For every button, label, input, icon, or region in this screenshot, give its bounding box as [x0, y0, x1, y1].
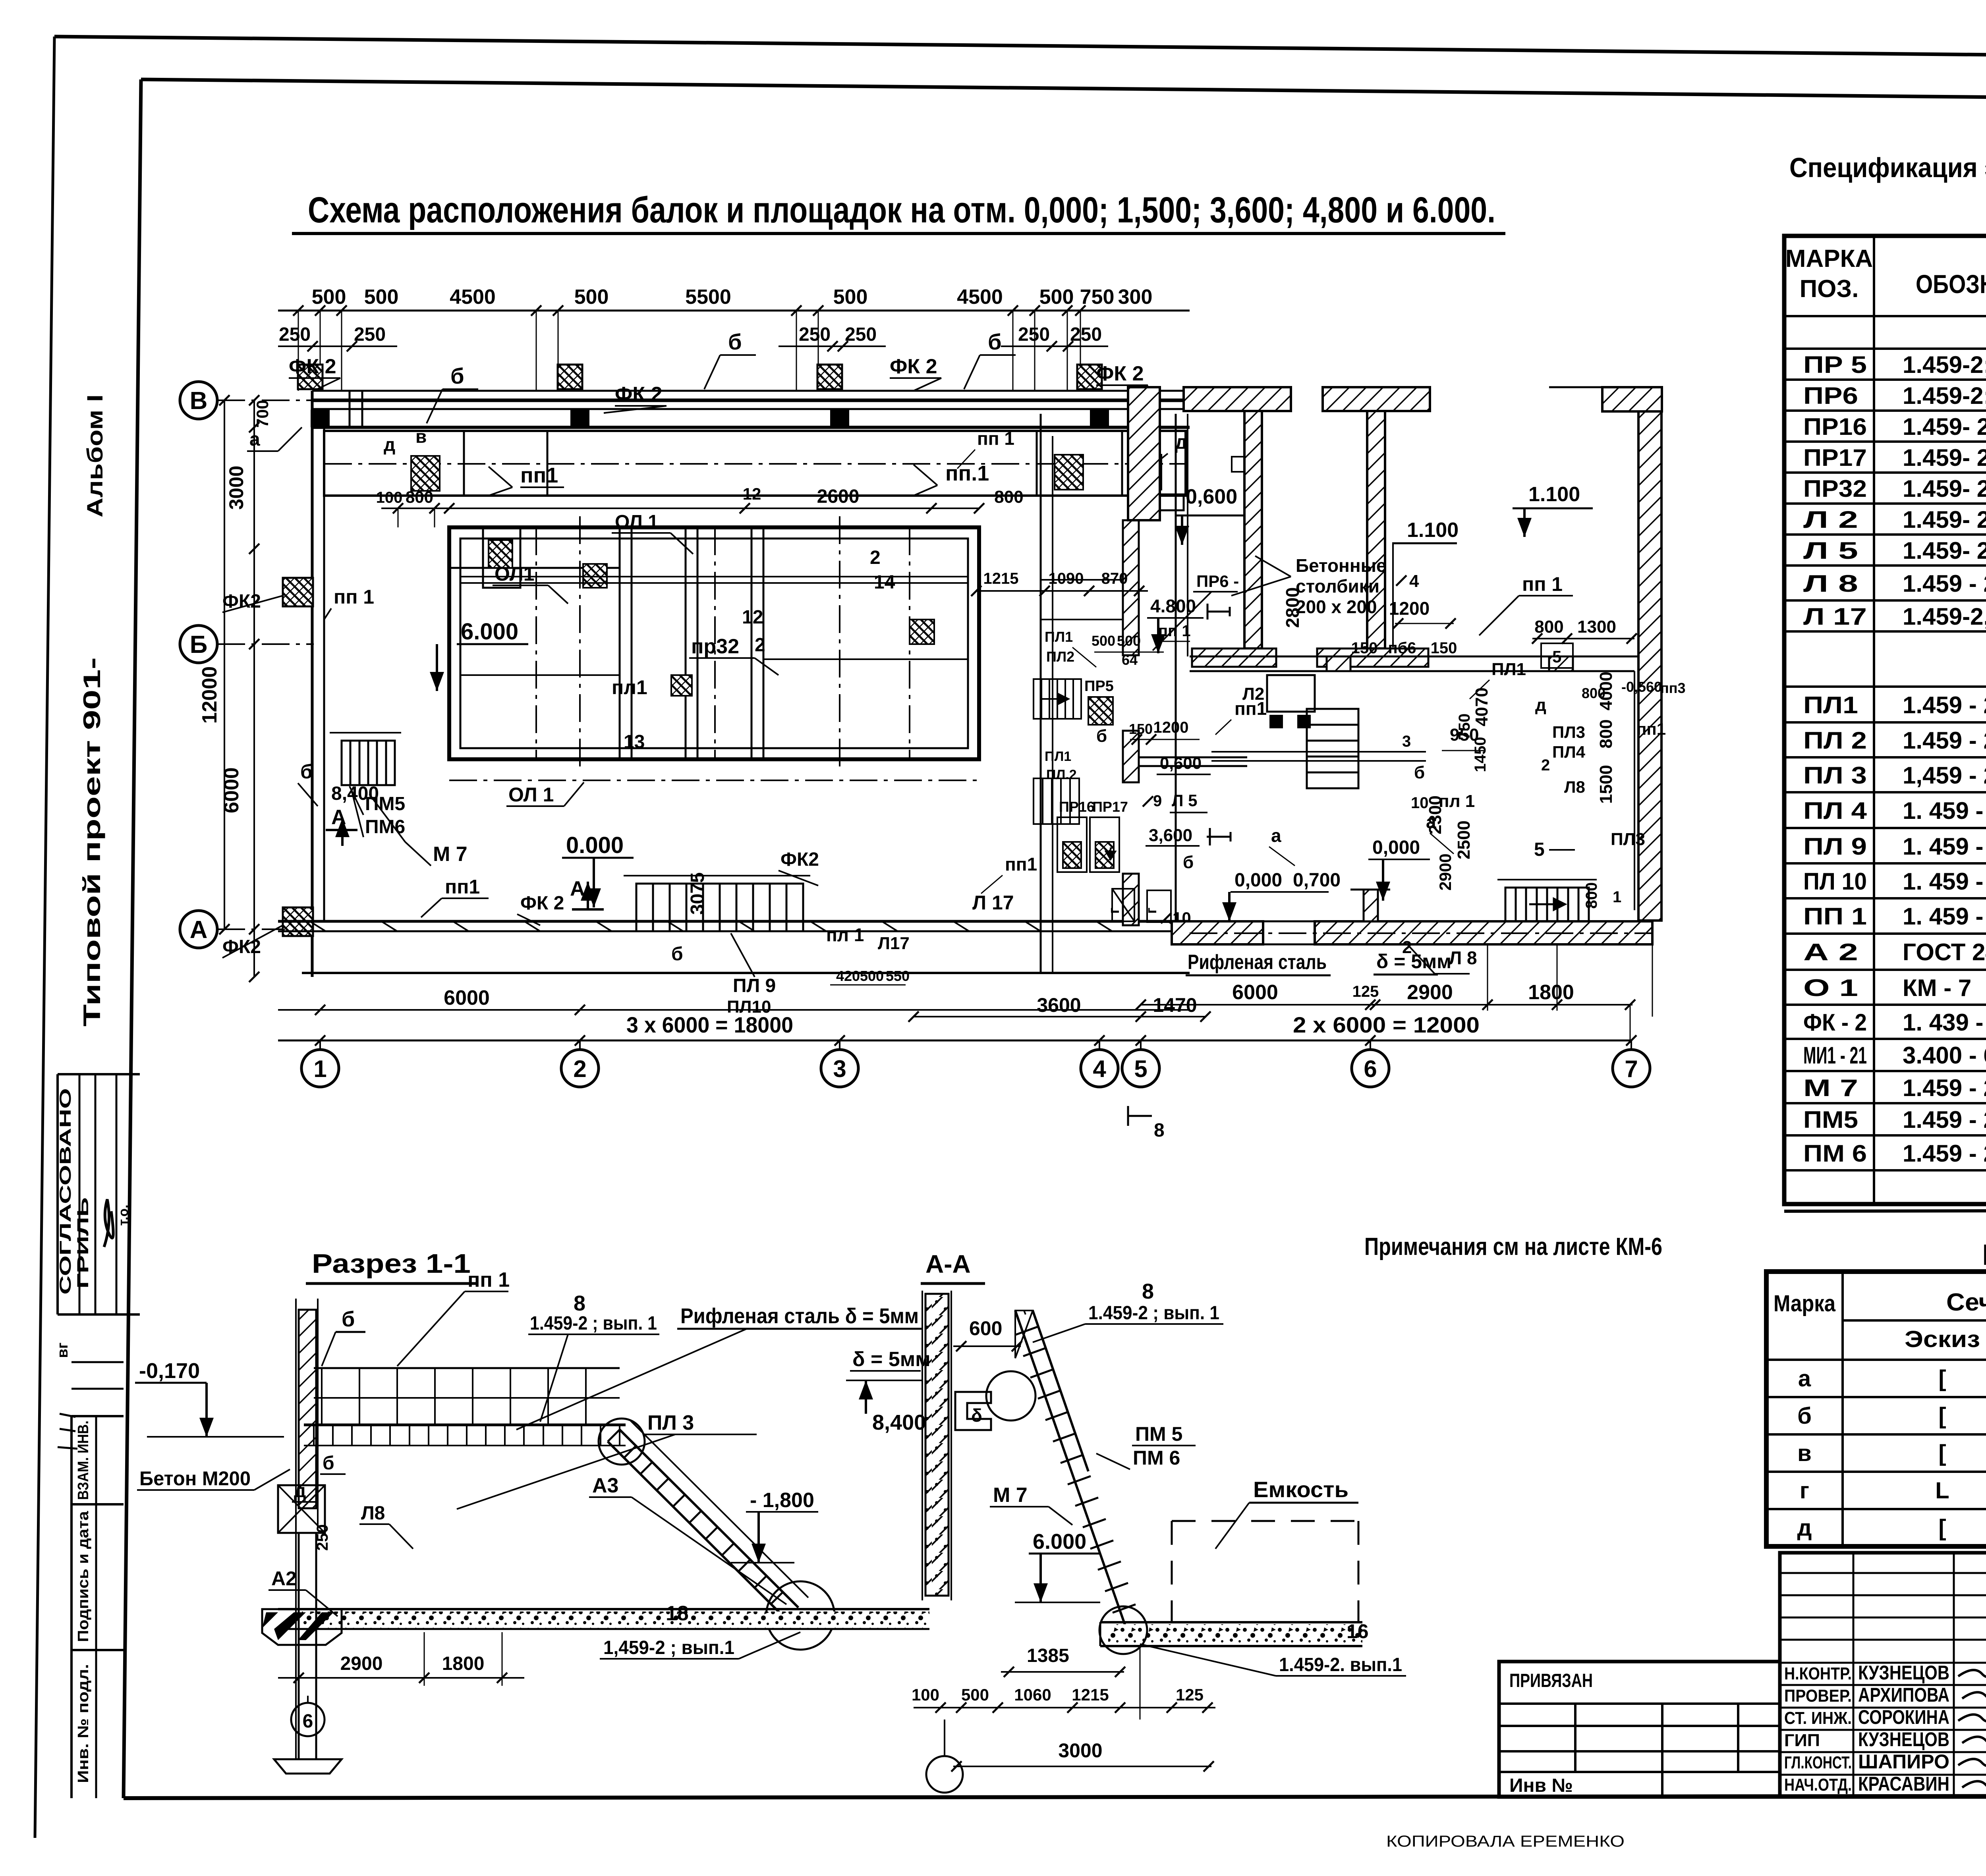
- svg-text:100: 100: [912, 1685, 939, 1704]
- svg-text:4500: 4500: [957, 286, 1003, 309]
- svg-text:ГРИЛЬ: ГРИЛЬ: [74, 1197, 92, 1289]
- svg-text:L: L: [1935, 1478, 1949, 1504]
- svg-text:б: б: [1797, 1403, 1812, 1429]
- svg-text:МИ1 - 21: МИ1 - 21: [1803, 1042, 1867, 1069]
- svg-text:Л 17: Л 17: [1803, 603, 1867, 630]
- plan: bottom wall hatch ticks: [310, 921, 326, 931]
- svg-text:пб6: пб6: [1388, 639, 1416, 657]
- svg-text:М 7: М 7: [433, 843, 468, 866]
- svg-text:1.459-2; вып.1: 1.459-2; вып.1: [1903, 351, 1986, 378]
- svg-text:- 1,800: - 1,800: [750, 1489, 814, 1512]
- svg-text:Инв. № подл.: Инв. № подл.: [75, 1664, 92, 1783]
- svg-text:1385: 1385: [1027, 1645, 1069, 1666]
- svg-text:Бетон М200: Бетон М200: [139, 1467, 251, 1490]
- svg-text:ПЛ2: ПЛ2: [1046, 648, 1074, 665]
- plan: tank inner rails: [461, 576, 968, 577]
- svg-text:600: 600: [969, 1317, 1002, 1339]
- svg-text:6: 6: [1364, 1056, 1377, 1082]
- section A-A ladder: [1015, 1310, 1127, 1631]
- svg-text:6000: 6000: [444, 986, 490, 1009]
- svg-text:500: 500: [961, 1685, 989, 1704]
- svg-text:1200: 1200: [1153, 719, 1189, 736]
- svg-text:ПР6: ПР6: [1803, 382, 1858, 409]
- svg-text:1.459 - 2 , вып. 2: 1.459 - 2 , вып. 2: [1903, 1106, 1986, 1133]
- svg-text:Типовой проект 901-: Типовой проект 901-: [79, 657, 105, 1027]
- svg-text:0,600: 0,600: [1160, 754, 1202, 772]
- section 1-1 stair diagonal: [620, 1430, 798, 1608]
- svg-text:д: д: [384, 434, 395, 455]
- svg-text:ФК2: ФК2: [780, 849, 819, 870]
- svg-text:100: 100: [376, 489, 403, 506]
- svg-text:1.459-2 ; вып. 1: 1.459-2 ; вып. 1: [1088, 1303, 1219, 1324]
- svg-text:ПП 1: ПП 1: [1803, 903, 1867, 930]
- svg-text:ФК 2: ФК 2: [1096, 362, 1144, 385]
- svg-text:3.400 - 6 / 76: 3.400 - 6 / 76: [1903, 1042, 1986, 1069]
- svg-text:КУЗНЕЦОВ: КУЗНЕЦОВ: [1858, 1662, 1949, 1684]
- svg-text:д: д: [1535, 695, 1546, 715]
- svg-text:3: 3: [833, 1056, 846, 1082]
- svg-text:ПЛ3: ПЛ3: [1552, 723, 1585, 741]
- svg-text:δ: δ: [971, 1405, 982, 1426]
- svg-text:1. 459 - 2 , вып. 2: 1. 459 - 2 , вып. 2: [1903, 868, 1986, 895]
- svg-text:8,400: 8,400: [872, 1411, 926, 1434]
- svg-text:500: 500: [312, 286, 346, 309]
- svg-text:[: [: [1938, 1366, 1946, 1392]
- svg-text:пп1: пп1: [1005, 854, 1037, 874]
- svg-text:2900: 2900: [1436, 853, 1455, 890]
- svg-text:б: б: [1183, 853, 1194, 872]
- svg-text:столбики: столбики: [1296, 576, 1379, 596]
- svg-text:д: д: [294, 1480, 306, 1502]
- svg-text:2: 2: [870, 547, 881, 568]
- svg-text:ПРОВЕР.: ПРОВЕР.: [1784, 1686, 1852, 1706]
- svg-text:12000: 12000: [198, 666, 221, 724]
- svg-text:Л8: Л8: [1564, 778, 1585, 796]
- svg-text:ПЛ1: ПЛ1: [1803, 692, 1858, 718]
- svg-text:А-А: А-А: [925, 1250, 971, 1278]
- svg-text:пп1: пп1: [1234, 698, 1267, 719]
- svg-text:2: 2: [573, 1056, 586, 1082]
- svg-text:500: 500: [860, 968, 884, 984]
- svg-text:[: [: [1938, 1440, 1946, 1466]
- svg-text:пл 1: пл 1: [826, 924, 864, 945]
- svg-text:Емкость: Емкость: [1253, 1477, 1348, 1502]
- svg-text:3075: 3075: [687, 872, 708, 915]
- svg-text:870: 870: [1101, 570, 1128, 587]
- vedomost table grid: [1766, 1272, 1986, 1546]
- section 1-1 column bottom: [278, 1485, 325, 1533]
- svg-text:ФК 2: ФК 2: [615, 383, 663, 406]
- plan: bottom sub dims: [278, 1009, 1190, 1011]
- svg-text:ПР16: ПР16: [1059, 799, 1095, 815]
- svg-text:ВЗАМ. ИНВ.: ВЗАМ. ИНВ.: [75, 1421, 92, 1500]
- svg-text:МАРКА: МАРКА: [1785, 245, 1873, 272]
- title block: [1499, 1662, 1780, 1797]
- plan: right room walls: [1190, 656, 1638, 658]
- svg-text:500: 500: [364, 286, 399, 309]
- svg-text:т.о.: т.о.: [116, 1204, 131, 1226]
- svg-text:2: 2: [1541, 757, 1550, 774]
- section A-A floor slab: [1100, 1621, 1362, 1623]
- svg-text:пп 1: пп 1: [977, 428, 1014, 449]
- svg-text:250: 250: [1070, 324, 1102, 345]
- svg-text:6000: 6000: [1232, 981, 1278, 1004]
- svg-text:Эскиз: Эскиз: [1905, 1326, 1980, 1352]
- svg-text:1.459-2; вып.1: 1.459-2; вып.1: [1903, 382, 1986, 409]
- svg-text:ФК - 2: ФК - 2: [1803, 1009, 1867, 1036]
- svg-text:а: а: [1426, 811, 1436, 832]
- svg-text:ПЛ 3: ПЛ 3: [647, 1411, 694, 1434]
- plan: big tank: [449, 527, 979, 759]
- svg-text:пп 1: пп 1: [468, 1268, 510, 1291]
- svg-text:ПОЗ.: ПОЗ.: [1800, 275, 1859, 303]
- svg-text:АРХИПОВА: АРХИПОВА: [1858, 1684, 1949, 1706]
- svg-text:б: б: [728, 329, 742, 354]
- svg-text:ГЛ.КОНСТ.: ГЛ.КОНСТ.: [1784, 1753, 1852, 1772]
- svg-text:12: 12: [742, 607, 763, 628]
- svg-text:800: 800: [1534, 617, 1563, 637]
- svg-text:ФК 2: ФК 2: [520, 893, 564, 914]
- plan: top platform strip pp1: [324, 431, 1186, 496]
- sheet inner frame top: [141, 79, 1986, 102]
- svg-text:800: 800: [1583, 882, 1600, 909]
- svg-text:1.459- 2, вып. 2: 1.459- 2, вып. 2: [1903, 537, 1986, 564]
- svg-text:1: 1: [313, 1056, 326, 1082]
- svg-text:пп 1: пп 1: [1158, 622, 1191, 640]
- svg-text:500: 500: [833, 286, 868, 309]
- svg-text:ПР17: ПР17: [1092, 799, 1128, 815]
- svg-text:2 х 6000 = 12000: 2 х 6000 = 12000: [1293, 1012, 1480, 1037]
- plan: tower stair L5: [1034, 679, 1081, 719]
- svg-text:200 х 200: 200 х 200: [1296, 596, 1377, 617]
- svg-text:-0,560: -0,560: [1621, 679, 1662, 695]
- svg-text:1.459 - 2 , вып. 2: 1.459 - 2 , вып. 2: [1903, 1075, 1986, 1101]
- svg-text:1. 459 - 2 , вып. 2: 1. 459 - 2 , вып. 2: [1903, 903, 1986, 930]
- svg-text:5500: 5500: [685, 286, 731, 309]
- svg-text:250: 250: [314, 1524, 331, 1551]
- svg-text:4500: 4500: [450, 286, 496, 309]
- svg-text:Бетонные: Бетонные: [1296, 555, 1387, 576]
- svg-text:СТ. ИНЖ.: СТ. ИНЖ.: [1784, 1708, 1852, 1728]
- svg-text:1200: 1200: [1389, 598, 1430, 619]
- svg-text:Сечение: Сечение: [1946, 1289, 1986, 1316]
- svg-text:д: д: [1175, 431, 1188, 453]
- svg-text:300: 300: [1118, 286, 1153, 309]
- svg-text:О 1: О 1: [1803, 975, 1858, 1001]
- left strip bottom boxes: [70, 1416, 73, 1798]
- svg-text:800: 800: [994, 487, 1023, 507]
- section 1-1 wall column: [299, 1310, 316, 1508]
- svg-text:1090: 1090: [1049, 570, 1084, 587]
- svg-text:Б: Б: [190, 631, 208, 658]
- svg-text:А: А: [190, 916, 208, 944]
- svg-text:150: 150: [1431, 639, 1457, 657]
- svg-text:16: 16: [1347, 1620, 1369, 1642]
- plan: tower bottom small boxes: [1112, 889, 1134, 921]
- svg-text:Альбом I: Альбом I: [82, 394, 107, 517]
- svg-text:550: 550: [886, 968, 910, 984]
- svg-text:250: 250: [845, 324, 877, 345]
- svg-text:0,700: 0,700: [1293, 870, 1341, 891]
- svg-text:5: 5: [1534, 839, 1545, 860]
- svg-text:750: 750: [1080, 286, 1115, 309]
- svg-text:2900: 2900: [1407, 981, 1453, 1004]
- svg-text:1. 439 - 2: 1. 439 - 2: [1903, 1009, 1986, 1036]
- svg-text:Л17: Л17: [878, 934, 910, 953]
- svg-text:пп.1: пп.1: [945, 461, 989, 485]
- svg-text:700: 700: [253, 400, 272, 428]
- svg-text:1800: 1800: [442, 1653, 485, 1674]
- svg-text:1.459-2, вып. 2: 1.459-2, вып. 2: [1903, 603, 1986, 630]
- svg-text:Л 17: Л 17: [972, 892, 1014, 914]
- svg-text:ШАПИРО: ШАПИРО: [1858, 1751, 1949, 1773]
- svg-text:ПРИВЯЗАН: ПРИВЯЗАН: [1509, 1670, 1593, 1691]
- svg-text:3000: 3000: [1058, 1739, 1102, 1762]
- plan: right section hatched walls: [1128, 387, 1160, 520]
- svg-text:Спецификация элементов к сх: Спецификация элементов к схемам располож…: [1789, 152, 1986, 183]
- plan: bottom central stair: [636, 884, 803, 931]
- plan: building top wall: [312, 390, 1190, 392]
- svg-text:ПМ 6: ПМ 6: [1803, 1140, 1867, 1167]
- svg-text:ПЛ 9: ПЛ 9: [733, 975, 776, 996]
- svg-text:1300: 1300: [1577, 617, 1616, 637]
- svg-text:г: г: [1143, 907, 1160, 914]
- specification table grid: [1784, 236, 1986, 1204]
- svg-text:КУЗНЕЦОВ: КУЗНЕЦОВ: [1858, 1728, 1949, 1751]
- svg-text:250: 250: [279, 324, 311, 345]
- svg-text:ПМ 5: ПМ 5: [1135, 1423, 1182, 1445]
- svg-text:ПЛ 10: ПЛ 10: [1803, 868, 1867, 895]
- svg-text:б: б: [342, 1307, 355, 1331]
- svg-text:г: г: [1106, 907, 1122, 914]
- svg-text:Л 5: Л 5: [1172, 791, 1198, 810]
- plan: top dimension row: [278, 310, 1190, 312]
- svg-text:250: 250: [799, 324, 831, 345]
- svg-text:В: В: [190, 387, 208, 415]
- svg-text:[: [: [1938, 1515, 1946, 1541]
- svg-text:1.459-2 ; вып. 1: 1.459-2 ; вып. 1: [530, 1313, 657, 1334]
- svg-text:12: 12: [743, 484, 761, 503]
- svg-text:ПЛ10: ПЛ10: [727, 997, 771, 1017]
- svg-text:1500: 1500: [1596, 765, 1616, 804]
- svg-text:вг: вг: [54, 1342, 71, 1358]
- svg-text:А3: А3: [592, 1474, 618, 1497]
- svg-text:2: 2: [755, 635, 765, 656]
- svg-text:500: 500: [1117, 633, 1141, 649]
- svg-text:Рифленая сталь: Рифленая сталь: [1188, 951, 1327, 974]
- svg-text:800: 800: [406, 488, 433, 506]
- svg-text:5: 5: [1552, 647, 1561, 666]
- svg-text:ПЛ1: ПЛ1: [1045, 749, 1071, 764]
- svg-text:ПЛ 3: ПЛ 3: [1803, 762, 1867, 789]
- svg-text:ПР6 -: ПР6 -: [1196, 572, 1239, 591]
- svg-text:пп1: пп1: [520, 463, 558, 487]
- svg-text:9: 9: [1153, 792, 1162, 810]
- svg-text:пл1: пл1: [612, 676, 647, 699]
- plan: mid dim row below strip: [381, 508, 979, 509]
- plan: bottom wall left building: [278, 920, 1190, 923]
- svg-text:1.459-2. вып.1: 1.459-2. вып.1: [1279, 1654, 1402, 1675]
- svg-text:б: б: [323, 1453, 334, 1474]
- svg-text:-0,170: -0,170: [139, 1359, 200, 1383]
- svg-text:Подпись и дата: Подпись и дата: [75, 1511, 92, 1642]
- svg-text:2600: 2600: [817, 486, 860, 507]
- svg-text:3000: 3000: [225, 465, 247, 510]
- svg-text:ОЛ1: ОЛ1: [495, 563, 535, 585]
- svg-text:0,000: 0,000: [1372, 837, 1420, 858]
- svg-text:д: д: [1797, 1515, 1812, 1541]
- svg-text:ПЛ1: ПЛ1: [1491, 660, 1526, 679]
- svg-text:СОГЛАСОВАНО: СОГЛАСОВАНО: [57, 1088, 74, 1295]
- plan: line below tank: [449, 780, 979, 781]
- svg-text:Л 5: Л 5: [1803, 537, 1858, 564]
- svg-text:3: 3: [1402, 733, 1411, 750]
- svg-text:а: а: [1271, 825, 1281, 846]
- svg-text:ГОСТ 24379.1 - 80: ГОСТ 24379.1 - 80: [1903, 939, 1986, 965]
- svg-text:ПЛ 2: ПЛ 2: [1803, 727, 1867, 754]
- svg-text:500: 500: [1039, 286, 1074, 309]
- section 1-1 dims: [278, 1677, 524, 1679]
- svg-text:6.000: 6.000: [461, 619, 518, 645]
- svg-text:а: а: [1798, 1366, 1811, 1392]
- left strip approval table: [58, 1073, 140, 1075]
- svg-text:δ = 5мм: δ = 5мм: [1376, 950, 1451, 973]
- plan: left axis circles: [180, 382, 217, 419]
- svg-text:ПЛ.2: ПЛ.2: [1046, 767, 1077, 782]
- svg-text:1.459- 2, вып.2: 1.459- 2, вып.2: [1903, 506, 1986, 533]
- svg-text:4: 4: [1409, 571, 1419, 591]
- svg-text:ПЛ4: ПЛ4: [1552, 743, 1586, 761]
- svg-text:800: 800: [1596, 719, 1616, 748]
- svg-text:1.459 - 2 , вып. 2: 1.459 - 2 , вып. 2: [1903, 727, 1986, 754]
- svg-text:Ведомость элементов: Ведомость элементов: [1982, 1238, 1986, 1271]
- plan: left vertical dims: [253, 400, 255, 977]
- plan: section cut 8 bottom: [1128, 1115, 1152, 1117]
- svg-text:500: 500: [1092, 633, 1115, 649]
- svg-text:[: [: [1938, 1403, 1946, 1429]
- svg-text:1800: 1800: [1528, 981, 1574, 1004]
- svg-text:ПР5: ПР5: [1084, 678, 1114, 695]
- svg-text:250: 250: [354, 324, 386, 345]
- svg-text:ПЛ3: ПЛ3: [1611, 830, 1645, 849]
- svg-text:пл 1: пл 1: [1439, 791, 1475, 811]
- svg-text:пп1: пп1: [1636, 720, 1666, 738]
- svg-text:б: б: [450, 363, 464, 388]
- sheet outer border top: [54, 37, 1986, 60]
- svg-text:125: 125: [1176, 1685, 1204, 1704]
- svg-text:а: а: [249, 429, 260, 450]
- svg-text:6000: 6000: [220, 767, 243, 813]
- svg-text:2800: 2800: [1282, 587, 1303, 628]
- svg-text:950: 950: [1450, 725, 1479, 745]
- svg-text:Схема расположения балок и: Схема расположения балок и площадок на о…: [308, 190, 1495, 230]
- svg-text:8: 8: [574, 1291, 585, 1315]
- svg-text:1.459 - 2, вып. 2: 1.459 - 2, вып. 2: [1903, 570, 1986, 597]
- svg-text:пп3: пп3: [1660, 680, 1686, 696]
- svg-text:Рифленая сталь δ = 5мм: Рифленая сталь δ = 5мм: [680, 1304, 919, 1328]
- svg-text:Л8: Л8: [361, 1503, 385, 1524]
- svg-text:пп 1: пп 1: [1522, 573, 1563, 595]
- svg-text:ПР 5: ПР 5: [1803, 351, 1867, 378]
- svg-text:1. 459 - 2 , вып. 2: 1. 459 - 2 , вып. 2: [1903, 833, 1986, 860]
- svg-text:0,600: 0,600: [1186, 485, 1237, 508]
- svg-text:0,000: 0,000: [1234, 870, 1282, 891]
- section A-A wall: [925, 1294, 949, 1596]
- svg-text:Примечания см на листе КМ-: Примечания см на листе КМ-6: [1364, 1233, 1662, 1260]
- svg-text:г: г: [1800, 1478, 1809, 1504]
- svg-text:Л 8: Л 8: [1803, 570, 1858, 597]
- svg-text:б: б: [300, 760, 313, 783]
- svg-text:125: 125: [1352, 983, 1379, 1000]
- svg-text:7: 7: [1625, 1056, 1638, 1082]
- svg-text:2900: 2900: [340, 1653, 383, 1674]
- section 1-1 top platform: [304, 1424, 626, 1426]
- svg-text:1.459 - 2 , вып.2: 1.459 - 2 , вып.2: [1903, 692, 1986, 718]
- svg-text:Марка: Марка: [1773, 1291, 1836, 1316]
- svg-text:3600: 3600: [1037, 994, 1081, 1016]
- svg-text:8,400: 8,400: [331, 783, 379, 804]
- svg-text:М 7: М 7: [1803, 1075, 1858, 1101]
- svg-text:в: в: [1797, 1440, 1812, 1466]
- svg-text:64: 64: [1122, 652, 1138, 668]
- svg-text:1,459 - 2 , вып. 2: 1,459 - 2 , вып. 2: [1903, 762, 1986, 789]
- svg-text:1.100: 1.100: [1528, 483, 1580, 506]
- svg-text:800: 800: [1582, 685, 1605, 701]
- svg-text:δ = 5мм: δ = 5мм: [852, 1348, 931, 1371]
- svg-text:150: 150: [1351, 639, 1378, 657]
- svg-text:4.800: 4.800: [1150, 596, 1196, 616]
- plan: tank axis lines: [579, 516, 581, 770]
- plan: tower mid platform band: [1138, 757, 1247, 759]
- svg-text:1.100: 1.100: [1407, 519, 1459, 542]
- svg-text:Л 2: Л 2: [1803, 506, 1858, 533]
- svg-text:420: 420: [836, 968, 860, 984]
- plan: tower dims 1215 1090 870: [976, 590, 1148, 592]
- svg-text:6: 6: [303, 1711, 313, 1732]
- svg-text:М 7: М 7: [993, 1484, 1028, 1507]
- svg-text:6.000: 6.000: [1033, 1530, 1086, 1554]
- svg-text:ПР32: ПР32: [1803, 475, 1867, 502]
- svg-text:ФК 2: ФК 2: [890, 355, 937, 378]
- svg-text:Инв №: Инв №: [1509, 1775, 1573, 1796]
- svg-text:ПР16: ПР16: [1803, 413, 1867, 440]
- svg-text:1. 459 - 2 , вып. 2: 1. 459 - 2 , вып. 2: [1903, 797, 1986, 824]
- plan: left stair: [342, 741, 395, 785]
- svg-text:КРАСАВИН: КРАСАВИН: [1858, 1773, 1949, 1795]
- svg-text:ФК 2: ФК 2: [289, 355, 336, 378]
- svg-text:Л 8: Л 8: [1449, 948, 1477, 968]
- svg-text:ПЛ1: ПЛ1: [1045, 629, 1073, 645]
- svg-text:б: б: [671, 944, 683, 965]
- plan: 250 sub dims: [278, 345, 397, 347]
- svg-text:0.000: 0.000: [566, 832, 624, 858]
- svg-text:1: 1: [1613, 888, 1621, 906]
- svg-text:КОПИРОВАЛА ЕРЕМЕНКО: КОПИРОВАЛА ЕРЕМЕНКО: [1386, 1833, 1625, 1850]
- svg-text:пп1: пп1: [445, 876, 480, 898]
- svg-text:ОЛ 1: ОЛ 1: [615, 511, 659, 533]
- plan: axis-5 hatched wall: [1123, 520, 1139, 655]
- signature squiggle: [104, 1199, 113, 1247]
- svg-text:ПР17: ПР17: [1803, 444, 1867, 471]
- svg-text:1.459 - 2 , вып. 2: 1.459 - 2 , вып. 2: [1903, 1140, 1986, 1167]
- section 1-1 floor: [278, 1608, 929, 1610]
- svg-text:А2: А2: [271, 1567, 297, 1590]
- svg-text:8: 8: [1154, 1120, 1165, 1141]
- svg-text:в: в: [415, 426, 427, 447]
- svg-text:б: б: [1414, 763, 1425, 782]
- svg-text:б: б: [988, 329, 1002, 354]
- sheet outer border left: [35, 37, 54, 1838]
